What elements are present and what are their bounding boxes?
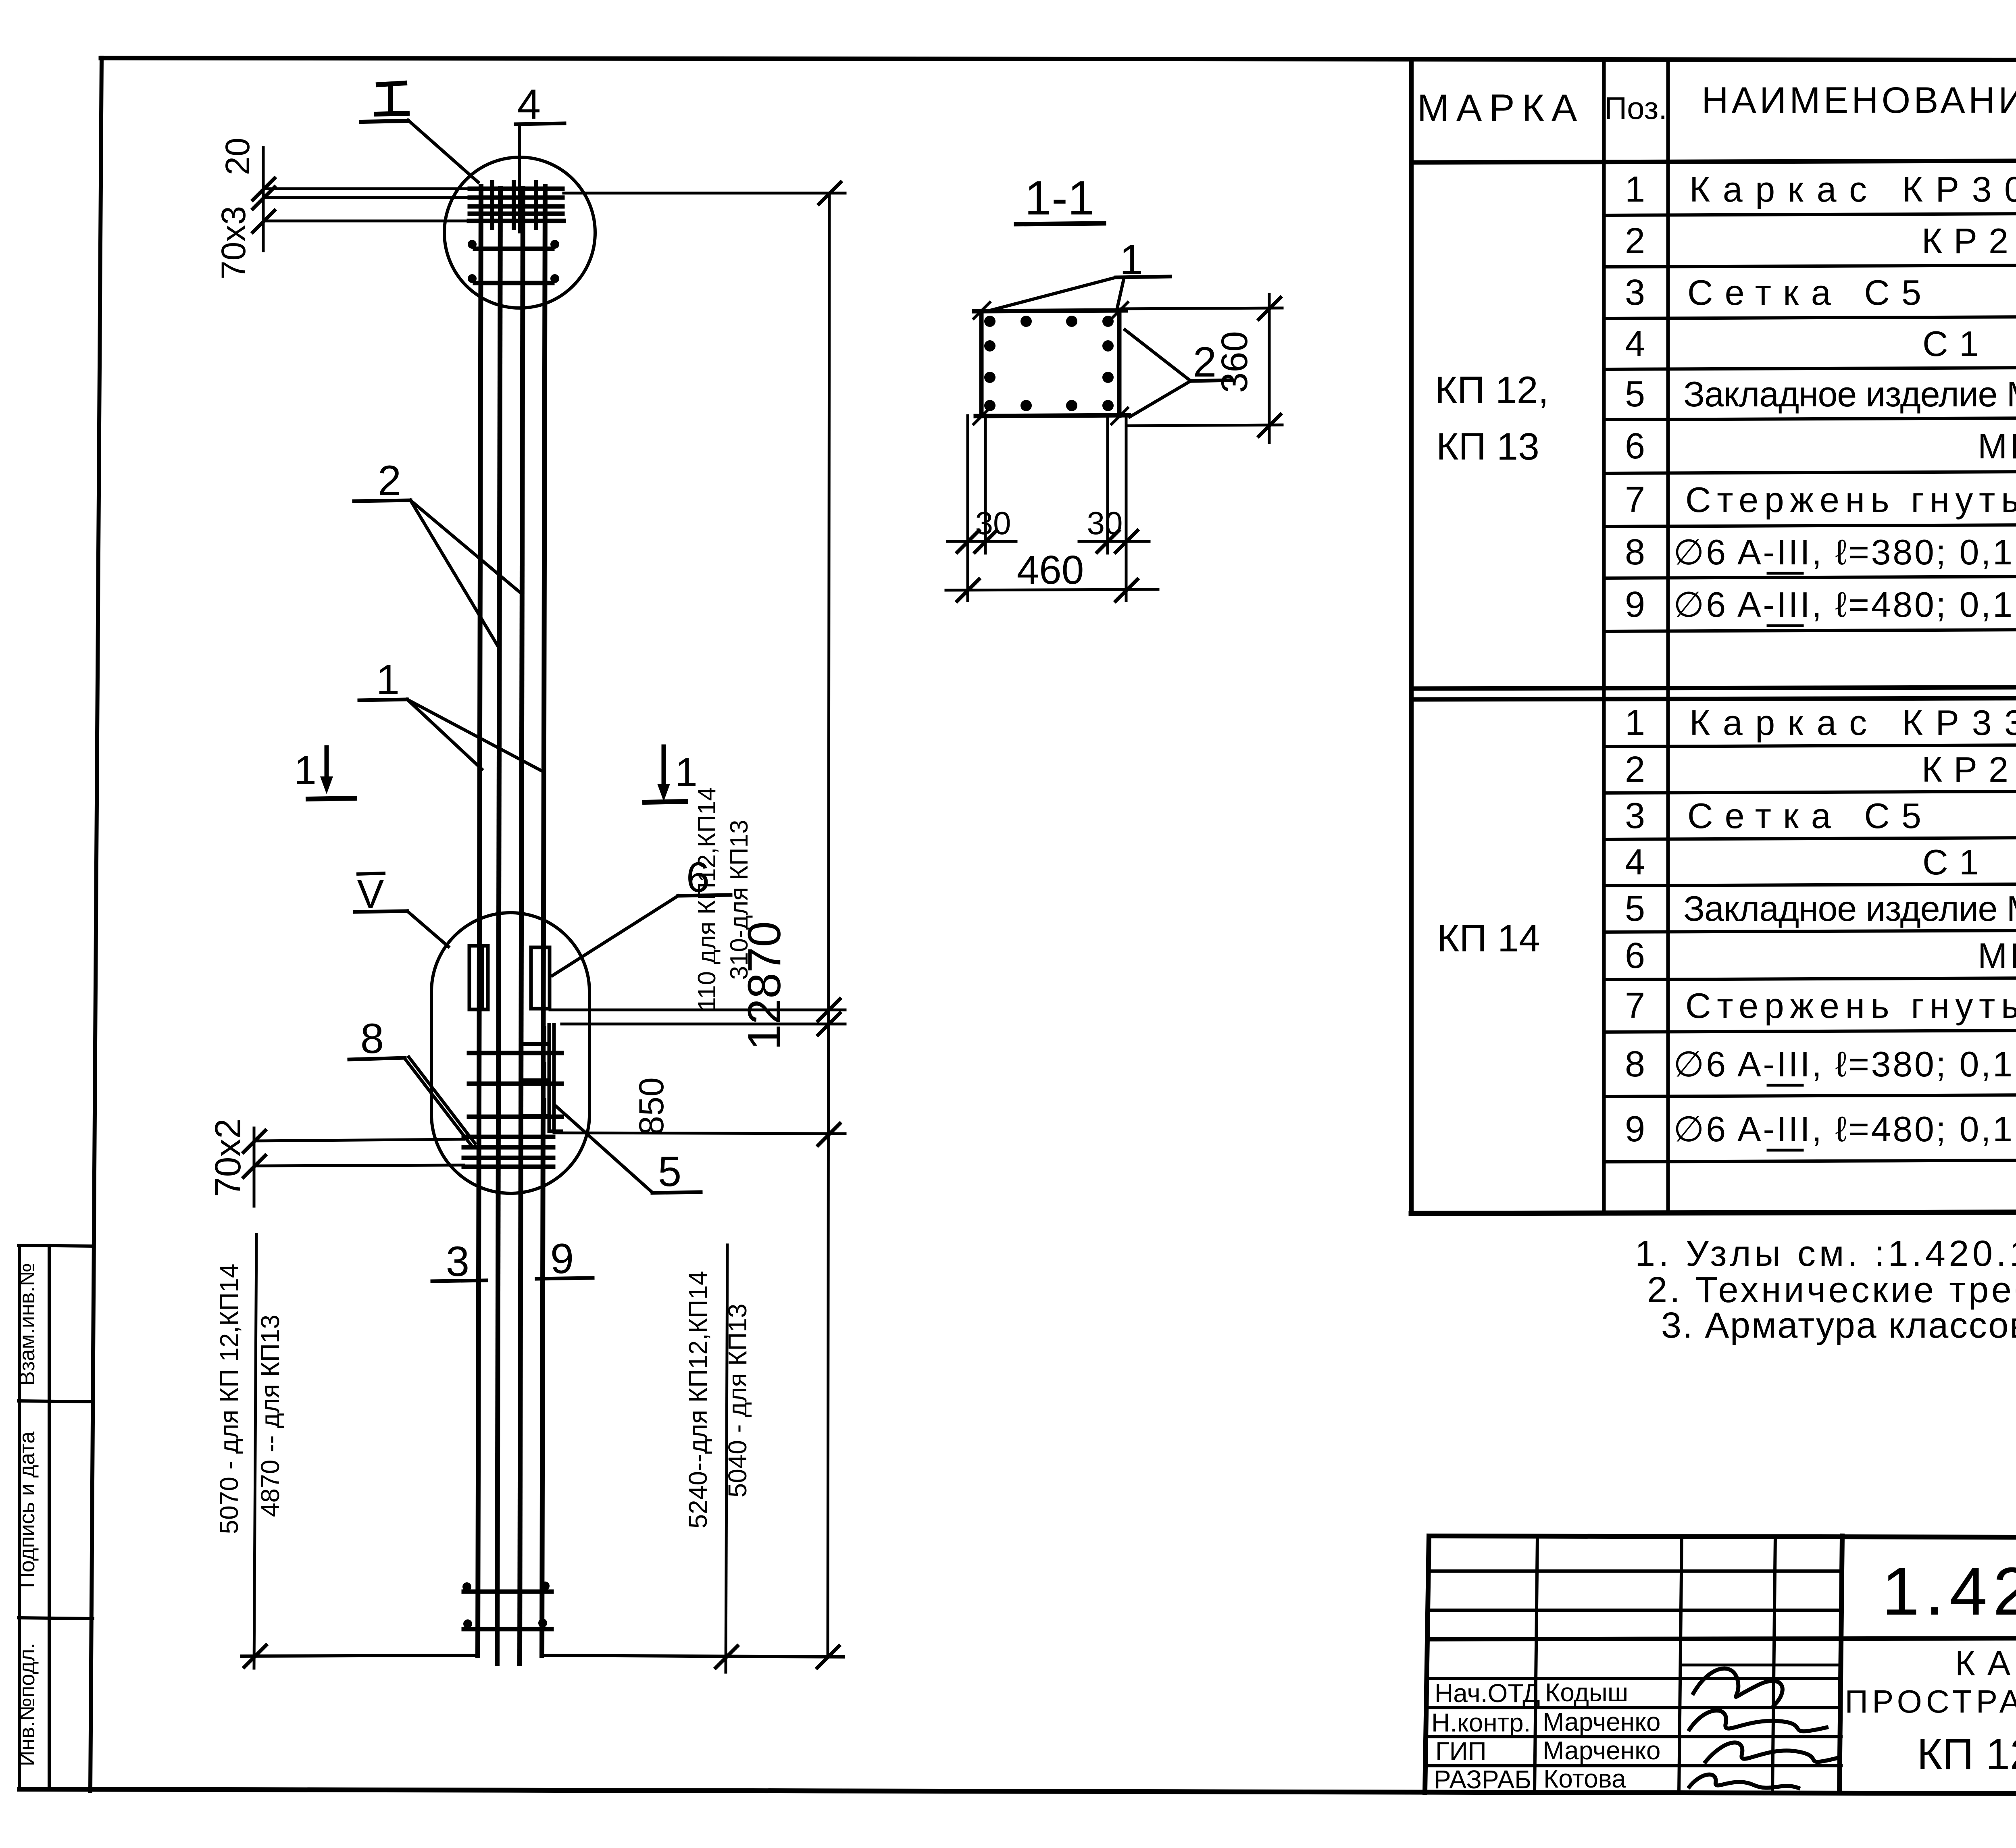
table group1 row 2: [1625, 221, 2016, 261]
bottom mesh bar lower with dots: [463, 1619, 552, 1629]
table group1 row 3: [1625, 273, 2016, 313]
table group2 row 9: [1625, 1109, 2016, 1149]
table bottom border: [1411, 1211, 2016, 1213]
dense mesh bottom of oval: [464, 1137, 553, 1167]
svg-text:1: 1: [1625, 703, 1645, 743]
callout 2: [354, 457, 522, 648]
svg-text:Нач.ОТД: Нач.ОТД: [1435, 1679, 1540, 1708]
table group1 row 1: [1625, 169, 2016, 210]
svg-text:1: 1: [294, 748, 317, 793]
table group2 row 5: [1625, 889, 2016, 929]
svg-text:2: 2: [1625, 221, 1645, 261]
table group1 row 7: [1625, 480, 2016, 520]
stirrup at 617: [468, 240, 559, 249]
dim 70x2 extension vertical: [253, 1128, 256, 1206]
table group2 row 4: [1625, 842, 2016, 882]
table group2 row 1: [1625, 703, 2016, 743]
dim line 70x2 upper: [254, 1139, 464, 1141]
name row line 3: [1426, 1764, 1841, 1767]
svg-text:1.420.1-32. 2-2 - 05: 1.420.1-32. 2-2 - 05: [1882, 1553, 2016, 1629]
svg-text:1: 1: [1625, 169, 1645, 210]
table outer verticals: [1409, 60, 1414, 1213]
corner angle bracket verticals: [549, 1025, 561, 1131]
detail oval V: [431, 913, 589, 1193]
table column lines: [1604, 60, 2016, 1213]
rebar dots right column: [1102, 340, 1114, 383]
ticks on main dim: [817, 999, 840, 1668]
svg-text:7: 7: [1625, 986, 1645, 1026]
ticks 70x2: [244, 1130, 265, 1177]
svg-text:ПРОСТРАНСТВЕННЫЙ: ПРОСТРАНСТВЕННЫЙ: [1845, 1683, 2016, 1719]
svg-text:КАРКАС: КАРКАС: [1955, 1644, 2016, 1683]
corner hatch marks: [974, 302, 1128, 424]
svg-text:2. Технические требования см.: 2. Технические требования см. 1.420.1-32…: [1647, 1270, 2016, 1310]
base line left segment: [242, 1655, 476, 1656]
left sidebar stamp column: [19, 1245, 93, 1790]
leader from I to circle: [408, 120, 478, 182]
svg-text:КР29: КР29: [1922, 749, 2016, 789]
ticks 460: [957, 579, 1137, 601]
dim 30 left verticals: [968, 416, 985, 601]
table group2 row 8: [1625, 1044, 2016, 1084]
svg-text:3: 3: [1625, 796, 1645, 836]
svg-text:70x3: 70x3: [215, 206, 252, 279]
svg-text:850: 850: [632, 1077, 671, 1135]
leader from 4: [518, 124, 521, 232]
svg-text:2: 2: [1625, 749, 1645, 790]
dim 360 vertical: [1268, 294, 1271, 443]
group 2 row lines: [1604, 743, 2016, 1162]
svg-text:1. Узлы см. :1.420.1-32.2-2У: 1. Узлы см. :1.420.1-32.2-2У: [1635, 1234, 2016, 1274]
label I: [361, 83, 408, 122]
bent bar hook 3: [525, 1100, 547, 1116]
signature squiggle 4: [1689, 1775, 1798, 1788]
svg-text:9: 9: [1625, 1109, 1645, 1149]
column rebar bar 2: [497, 189, 500, 1663]
dimension line 20 lower: [263, 196, 475, 199]
tick right bottom dim: [716, 1646, 737, 1668]
section square: [974, 310, 1129, 416]
svg-text:8: 8: [1625, 1044, 1645, 1084]
title block vertical col3/col4: [1772, 1536, 1775, 1792]
callout 5: [556, 1106, 701, 1195]
svg-text:5: 5: [1625, 889, 1645, 929]
title block row line a: [1428, 1569, 1842, 1573]
underline A-III: [1768, 1084, 1802, 1087]
svg-text:110 для КП12,КП14: 110 для КП12,КП14: [693, 787, 721, 1011]
callout 9: [537, 1235, 593, 1282]
rebar dots bottom row: [984, 400, 1114, 411]
section mark 1 right: [645, 747, 698, 802]
dim 30 right line: [1079, 540, 1149, 543]
svg-text:5070 - для КП 12,КП14: 5070 - для КП 12,КП14: [215, 1264, 244, 1534]
table header bottom: [1411, 159, 2016, 162]
callout 1 (main bars): [359, 656, 543, 772]
callout 6: [552, 854, 731, 976]
svg-text:30: 30: [975, 505, 1011, 541]
table group1 row 6: [1625, 426, 2016, 466]
svg-text:8: 8: [360, 1015, 384, 1062]
callout 8: [349, 1015, 475, 1145]
title block row line b: [1428, 1609, 1842, 1612]
svg-text:НАИМЕНОВАНИЕ: НАИМЕНОВАНИЕ: [1702, 80, 2016, 121]
dim 30 right verticals: [1108, 416, 1126, 601]
svg-text:4: 4: [1625, 324, 1645, 364]
top mesh cross wires: [492, 182, 536, 228]
extension line bracket top: [562, 1023, 845, 1026]
callout 3: [432, 1238, 486, 1285]
table group1 row 8: [1625, 532, 2016, 572]
svg-text:5: 5: [658, 1148, 681, 1195]
rebar dots left column: [984, 340, 996, 383]
svg-text:Поз.: Поз.: [1604, 90, 1667, 126]
svg-text:КП 14: КП 14: [1437, 917, 1540, 960]
embedded plate left: [469, 946, 488, 1009]
svg-text:1: 1: [376, 656, 400, 703]
signature squiggle 3: [1706, 1742, 1839, 1762]
svg-text:КП 13: КП 13: [1436, 425, 1539, 468]
column rebar bar 1: [478, 186, 481, 1655]
embedded plate right: [531, 947, 550, 1009]
svg-text:4870 -- для КП13: 4870 -- для КП13: [256, 1315, 285, 1517]
dim ticks: [253, 178, 275, 232]
svg-text:9: 9: [550, 1235, 574, 1282]
table group1 row 9: [1625, 585, 2016, 625]
title block vertical col4/right: [1839, 1536, 1842, 1792]
ticks 30 left: [957, 531, 997, 552]
column rebar bar 3: [520, 189, 523, 1663]
svg-text:6: 6: [1625, 426, 1645, 466]
dim 30 left line: [948, 540, 1016, 543]
svg-text:КР29: КР29: [1922, 221, 2016, 261]
svg-text:5040 - для КП13: 5040 - для КП13: [723, 1304, 752, 1498]
svg-text:310-для КП13: 310-для КП13: [725, 820, 753, 980]
svg-text:30: 30: [1087, 505, 1123, 541]
ticks 360: [1259, 298, 1281, 436]
svg-text:6: 6: [1625, 936, 1645, 976]
dim line 70x2 lower: [254, 1165, 464, 1166]
top-left dimension extension line: [262, 148, 265, 251]
dim 460 line: [946, 589, 1158, 590]
svg-text:Взам.инв.№: Взам.инв.№: [15, 1263, 39, 1386]
name row line 1: [1427, 1706, 1841, 1709]
svg-text:3: 3: [446, 1238, 469, 1285]
svg-text:ГИП: ГИП: [1435, 1737, 1487, 1766]
detail circle I: [444, 157, 595, 308]
svg-text:8: 8: [1625, 532, 1645, 572]
svg-text:4: 4: [1625, 842, 1645, 882]
right bottom dim vertical 5240/5040: [726, 1245, 727, 1672]
svg-text:Котова: Котова: [1543, 1764, 1626, 1793]
underline A-III: [1768, 1149, 1802, 1152]
section callout 1: [987, 236, 1170, 311]
stirrup at 702: [468, 274, 559, 283]
title block vertical col2/col3: [1679, 1536, 1682, 1792]
svg-text:∅6 A-III, ℓ=380; 0,1 кг: ∅6 A-III, ℓ=380; 0,1 кг: [1673, 1044, 2016, 1084]
svg-text:Подпись и дата: Подпись и дата: [15, 1431, 39, 1588]
title block outer box: [1425, 1536, 2016, 1792]
table group2 row 7: [1625, 986, 2016, 1026]
title block col3-4 extra row: [1680, 1664, 1841, 1667]
group 2 top border: [1411, 697, 2016, 699]
label V: [355, 872, 448, 947]
ticks 30 right: [1097, 531, 1137, 552]
svg-text:МН32: МН32: [1978, 936, 2016, 976]
svg-text:2: 2: [378, 457, 401, 504]
svg-text:КП 12,: КП 12,: [1435, 369, 1549, 412]
section callout 2: [1125, 330, 1231, 417]
underline A-III: [1768, 624, 1802, 627]
extension line bracket bottom: [554, 1133, 845, 1134]
left bottom dim vertical 5070/4870: [254, 1234, 256, 1668]
base line right segment: [542, 1655, 843, 1657]
svg-text:Закладное изделие МН6: Закладное изделие МН6: [1683, 889, 2016, 928]
svg-text:∅6 A-III, ℓ=480; 0,1 кг: ∅6 A-III, ℓ=480; 0,1 кг: [1673, 585, 2016, 624]
title block vertical col1/col2: [1535, 1536, 1537, 1792]
svg-text:1-1: 1-1: [1025, 171, 1094, 225]
svg-text:5: 5: [1625, 374, 1645, 414]
svg-text:Марченко: Марченко: [1543, 1707, 1660, 1736]
label 4: [516, 81, 564, 128]
svg-text:20: 20: [219, 137, 256, 175]
svg-text:7: 7: [1625, 480, 1645, 520]
signature squiggle 1: [1693, 1669, 1783, 1705]
svg-text:3. Арматура классов A-III, A-I: 3. Арматура классов A-III, A-I по ГОСТ 5…: [1661, 1305, 2016, 1346]
signature squiggle 2: [1689, 1711, 1826, 1731]
dimension line 70x3: [263, 220, 470, 223]
extension line plate bottom: [550, 1009, 845, 1011]
group 1 row lines: [1604, 212, 2016, 631]
bottom mesh bar upper with dots: [462, 1582, 552, 1592]
top mesh bars: [469, 189, 564, 221]
dim 360 extensions: [1121, 308, 1282, 309]
svg-text:Закладное изделие МН6: Закладное изделие МН6: [1683, 374, 2016, 414]
name row top: [1429, 1677, 1841, 1680]
top extension line to main dim: [564, 192, 845, 195]
svg-text:5240--для КП12,КП14: 5240--для КП12,КП14: [683, 1271, 712, 1529]
rebar dots top row: [984, 316, 1114, 327]
bent bar hook 2: [525, 1064, 547, 1080]
name row line 2: [1427, 1735, 1841, 1738]
svg-text:∅6 A-III, ℓ=380; 0,1 кг: ∅6 A-III, ℓ=380; 0,1 кг: [1673, 532, 2016, 572]
svg-text:70x2: 70x2: [208, 1118, 248, 1197]
svg-text:9: 9: [1625, 585, 1645, 625]
mesh bars inside oval: [469, 1053, 562, 1117]
underline A-III: [1768, 572, 1802, 575]
dimension line 20 upper: [263, 187, 475, 190]
svg-text:4: 4: [517, 81, 541, 128]
section title 1-1: [1016, 171, 1104, 225]
table group1 row 5: [1625, 374, 2016, 414]
svg-text:Инв.№подл.: Инв.№подл.: [15, 1643, 39, 1766]
group 1 bottom border: [1411, 686, 2016, 689]
svg-text:РАЗРАБ: РАЗРАБ: [1434, 1765, 1531, 1794]
tick top of 12870: [819, 182, 841, 204]
svg-text:МАРКА: МАРКА: [1417, 87, 1585, 129]
table group2 row 2: [1625, 749, 2016, 790]
svg-text:КП 12...КП 14: КП 12...КП 14: [1917, 1729, 2016, 1778]
svg-text:3: 3: [1625, 273, 1645, 313]
svg-text:460: 460: [1017, 547, 1084, 593]
svg-text:∅6 A-III, ℓ=480; 0,1 кг: ∅6 A-III, ℓ=480; 0,1 кг: [1673, 1109, 2016, 1149]
svg-text:Н.контр.: Н.контр.: [1431, 1708, 1531, 1737]
tick bottom left dim: [244, 1645, 266, 1667]
title block mid divider: [1427, 1638, 2016, 1639]
svg-text:МН32: МН32: [1978, 426, 2016, 466]
table group2 row 3: [1625, 796, 2016, 836]
bent bar hook 1: [525, 1028, 547, 1044]
svg-text:Марченко: Марченко: [1543, 1736, 1660, 1765]
svg-text:Кодыш: Кодыш: [1545, 1678, 1628, 1707]
main dimension line 12870 vertical: [828, 193, 829, 1657]
section mark 1 left: [294, 747, 355, 799]
table group1 row 4: [1625, 324, 2016, 364]
column rebar bar 4: [542, 186, 545, 1655]
svg-text:360: 360: [1214, 331, 1255, 393]
table group2 row 6: [1625, 936, 2016, 976]
